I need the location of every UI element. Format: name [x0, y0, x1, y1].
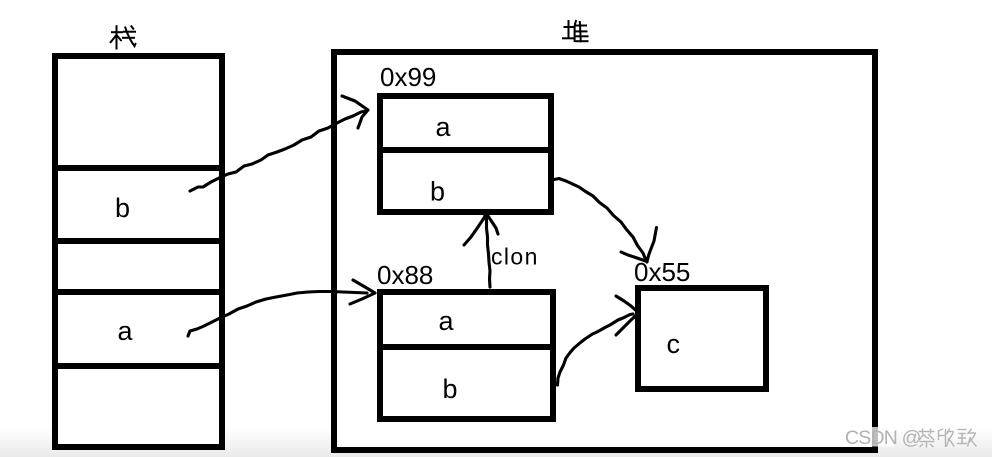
- svg-text:a: a: [118, 316, 134, 346]
- svg-text:0x99: 0x99: [380, 62, 436, 92]
- svg-text:b: b: [115, 193, 130, 223]
- svg-text:b: b: [430, 177, 445, 207]
- svg-text:CSDN @: CSDN @: [845, 427, 921, 449]
- svg-text:0x88: 0x88: [377, 260, 433, 290]
- svg-text:a: a: [439, 306, 455, 336]
- svg-text:a: a: [436, 112, 452, 142]
- svg-text:clon: clon: [491, 244, 539, 270]
- svg-text:c: c: [667, 329, 681, 359]
- svg-text:b: b: [443, 374, 458, 404]
